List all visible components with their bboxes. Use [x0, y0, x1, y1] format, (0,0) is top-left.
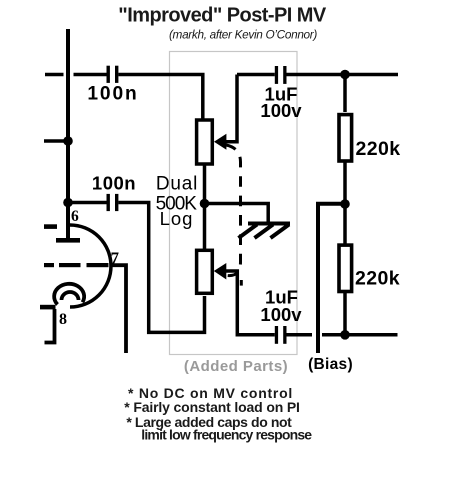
svg-text:Log: Log [160, 208, 194, 229]
node F junction [340, 330, 350, 340]
wire: pin8 lead [45, 309, 55, 343]
wire: ground branch from node C [205, 204, 269, 223]
svg-text:100n: 100n [92, 173, 136, 194]
wire: C2 down-around to P2 bottom [118, 203, 204, 333]
wire: top-left stub [45, 73, 64, 77]
wire: node B to C2 [68, 201, 107, 205]
svg-text:* Fairly constant load on PI: * Fairly constant load on PI [124, 399, 299, 415]
tube envelope arc [70, 225, 111, 307]
wire: node D to R1 [343, 75, 347, 113]
pin 8 bar [40, 305, 56, 310]
node E junction [340, 199, 350, 209]
svg-text:100v: 100v [260, 100, 302, 121]
notes [124, 385, 312, 443]
potentiometer P1 (upper 500K) [197, 120, 213, 164]
wire: pin7 lead [112, 265, 127, 353]
svg-text:220k: 220k [356, 138, 401, 160]
tube heater outer loop [54, 284, 84, 305]
svg-text:8: 8 [59, 311, 67, 328]
tube upper dash [44, 224, 57, 229]
wire: stub at node A [44, 139, 68, 143]
resistor R2 220k [339, 245, 352, 291]
capacitor C2 100n [107, 194, 119, 211]
resistor R1 220k [339, 115, 352, 161]
wire: left vertical bus [66, 29, 70, 238]
wire: R2 to node F [343, 293, 347, 335]
arrow wiper P2 [214, 263, 227, 280]
wire: top wire wiper to C3 [237, 73, 275, 77]
wire: P2 wiper arm [226, 271, 275, 335]
label Dual 500K Log [156, 174, 199, 230]
svg-text:100v: 100v [260, 304, 302, 325]
label 1uF 100v (top) [260, 84, 302, 122]
wire: top wire to C1 [74, 73, 107, 77]
svg-text:220k: 220k [355, 268, 400, 290]
svg-text:6: 6 [71, 208, 79, 225]
svg-text:100n: 100n [87, 84, 138, 105]
svg-text:limit low frequency response: limit low frequency response [141, 427, 312, 443]
gang dashed link tail [240, 280, 243, 286]
node B junction [63, 198, 73, 208]
arrow wiper P1 [214, 134, 226, 150]
capacitor C1 100n [107, 66, 119, 83]
svg-text:(markh, after Kevin O’Connor): (markh, after Kevin O’Connor) [169, 27, 317, 41]
tube heater inner loop [62, 292, 79, 300]
svg-text:"Improved" Post-PI MV: "Improved" Post-PI MV [118, 5, 327, 27]
svg-text:(Bias): (Bias) [308, 356, 353, 373]
capacitor C4 1uF [275, 326, 287, 344]
node A junction [63, 136, 73, 146]
wire: P1 bottom to P2 top [203, 163, 207, 250]
ground (chassis) [239, 224, 291, 239]
tube grid dashes [44, 263, 109, 267]
node C junction (pot chain mid) [200, 199, 210, 209]
wire: bias tap from node E [318, 204, 345, 353]
svg-text:(Added Parts): (Added Parts) [184, 358, 288, 375]
gang dashed link [226, 145, 241, 276]
wire: C4 to gap [287, 333, 313, 337]
wire: C3 to node D [287, 73, 399, 77]
wire: R1 to node E [343, 162, 347, 244]
node D junction [340, 70, 350, 80]
added-parts box [170, 52, 298, 355]
wire: P1 wiper arm [226, 75, 237, 142]
svg-text:Dual: Dual [156, 174, 198, 195]
wire: C1 to pot P1 top [118, 75, 202, 120]
label 1uF 100v (bottom) [260, 287, 302, 326]
tube plate bar [56, 238, 80, 243]
wire: gap to node F and right end [322, 333, 398, 337]
capacitor C3 1uF [275, 66, 287, 84]
potentiometer P2 (lower 500K) [197, 250, 213, 293]
